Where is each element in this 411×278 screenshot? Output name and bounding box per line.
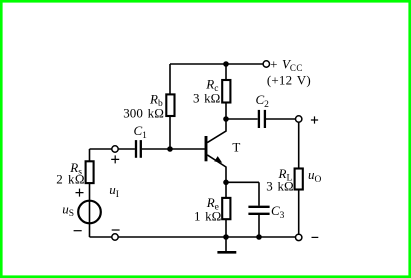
capacitor C2 plates [259, 110, 265, 128]
wire input top left [90, 148, 112, 150]
wire C2 to output [266, 118, 296, 120]
resistor Re [222, 198, 230, 219]
wire bottom rail [118, 236, 295, 238]
resistor RL [295, 169, 303, 190]
node Re bottom [223, 234, 229, 240]
svg-text:300 kΩ: 300 kΩ [123, 106, 164, 121]
node emitter [223, 180, 229, 186]
resistor Rs [86, 161, 94, 183]
wire Rs to source to bottom rail [89, 183, 91, 237]
terminal input top [112, 146, 118, 152]
wire Rb branch top [169, 64, 171, 94]
node C3 bottom [256, 234, 262, 240]
wire Re to bottom rail [225, 219, 227, 237]
capacitor C1 plates [136, 140, 141, 158]
terminal input bottom [112, 234, 118, 240]
svg-text:2 kΩ: 2 kΩ [56, 172, 85, 187]
resistor Rb [166, 94, 174, 116]
polarity + output top [311, 116, 318, 123]
wire RL top [298, 122, 300, 168]
terminal Vcc [263, 61, 269, 67]
polarity - input bottom [112, 229, 120, 231]
polarity + input top [111, 155, 119, 163]
svg-text:3 kΩ: 3 kΩ [193, 91, 220, 106]
wire collector to C2 [226, 118, 258, 120]
resistor Rc [222, 80, 230, 103]
wire top rail [170, 63, 263, 65]
wire bottom rail left [90, 236, 112, 238]
transistor T base bar [205, 136, 208, 161]
wire C3 bottom [258, 215, 260, 237]
wire emitter to Re [225, 182, 227, 198]
svg-text:(+12 V): (+12 V) [267, 72, 311, 87]
wire ground stub [225, 237, 227, 251]
terminal output bottom [296, 234, 302, 240]
wire Rc bottom [225, 103, 227, 120]
transistor T emitter arrow [214, 156, 222, 163]
node junction Rb base [167, 146, 173, 152]
node collector [223, 116, 229, 122]
wire RL bottom [298, 190, 300, 235]
wire left branch Rs top [89, 149, 91, 161]
polarity + source [76, 189, 84, 197]
svg-text:1 kΩ: 1 kΩ [194, 208, 221, 223]
wire C1 to base [142, 148, 205, 150]
capacitor C3 plates [248, 207, 269, 214]
svg-text:T: T [232, 140, 240, 155]
wire Rc top [225, 64, 227, 80]
ground bar [217, 251, 236, 254]
wire transistor emitter [207, 155, 226, 182]
wire transistor collector [207, 119, 226, 143]
wire emitter node to C3 [226, 181, 259, 183]
svg-text:3 kΩ: 3 kΩ [266, 178, 293, 193]
voltage source uS circle [78, 201, 101, 224]
polarity - output bottom [312, 236, 319, 238]
wire input top to C1 [118, 148, 135, 150]
terminal output top [296, 116, 302, 122]
wire Rb branch bottom [169, 116, 171, 149]
node junction Rc top rail [223, 61, 229, 67]
wire C3 top [258, 182, 260, 205]
polarity - source [74, 230, 82, 232]
